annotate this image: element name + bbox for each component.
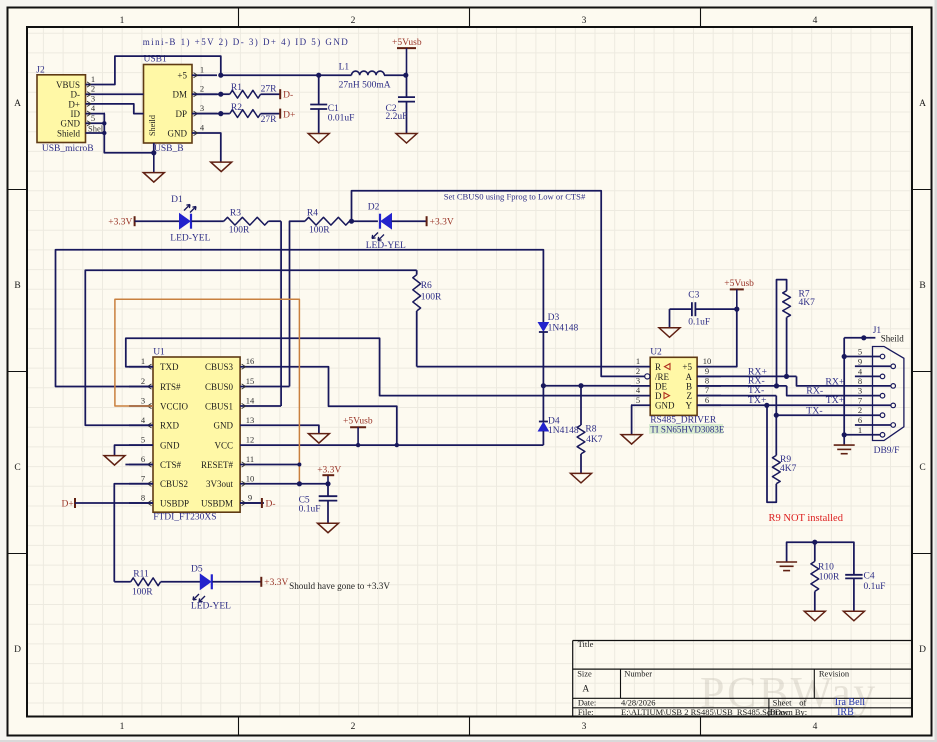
svg-text:A: A xyxy=(686,372,693,382)
wire B net xyxy=(697,385,787,387)
svg-text:2: 2 xyxy=(351,16,356,26)
junction Y/TX+ xyxy=(764,403,769,408)
junction Z/R9 xyxy=(774,413,779,418)
wire CTS# stub xyxy=(125,464,153,466)
svg-text:DP: DP xyxy=(175,109,187,119)
svg-text:R6: R6 xyxy=(421,281,432,291)
svg-text:5: 5 xyxy=(91,113,95,123)
svg-text:D-: D- xyxy=(266,500,276,510)
svg-text:Sheild: Sheild xyxy=(881,334,905,344)
diode D1 LED xyxy=(135,195,224,244)
wire U2 GND xyxy=(630,405,633,434)
wire 3V3out xyxy=(264,483,328,485)
svg-text:R4: R4 xyxy=(307,208,318,218)
svg-text:D1: D1 xyxy=(171,195,183,205)
svg-text:USBDP: USBDP xyxy=(160,498,189,508)
connector USB1 pins xyxy=(154,65,217,153)
svg-text:D: D xyxy=(655,391,662,401)
svg-text:12: 12 xyxy=(246,435,255,445)
connector J2 box xyxy=(36,66,93,154)
svg-text:3: 3 xyxy=(636,375,640,385)
svg-text:100R: 100R xyxy=(309,225,330,235)
svg-text:GND: GND xyxy=(168,128,188,138)
svg-text:4: 4 xyxy=(813,16,818,26)
svg-text:0.1uF: 0.1uF xyxy=(299,505,321,515)
diode D3 xyxy=(538,313,578,333)
earth ground J1 xyxy=(834,444,855,446)
svg-text:+3.3V: +3.3V xyxy=(264,578,288,588)
wire RTS# to D3 xyxy=(56,250,544,387)
svg-text:R8: R8 xyxy=(585,425,596,435)
svg-text:8: 8 xyxy=(858,376,862,386)
junction VCC/+5Vusb xyxy=(356,443,360,447)
svg-text:DE: DE xyxy=(655,381,667,391)
resistor R9 xyxy=(767,405,797,502)
wire CBUS1 stub xyxy=(264,405,281,407)
svg-text:Shield: Shield xyxy=(57,128,81,138)
svg-text:3: 3 xyxy=(91,93,95,103)
svg-text:TX-: TX- xyxy=(806,406,822,417)
svg-text:3: 3 xyxy=(200,103,204,113)
wire TXD loop xyxy=(126,338,631,395)
svg-text:16: 16 xyxy=(246,356,255,366)
svg-text:+3.3V: +3.3V xyxy=(430,218,454,228)
svg-text:A: A xyxy=(14,99,21,109)
junction C1 tap xyxy=(316,73,321,78)
wire +5 rail xyxy=(221,74,352,76)
svg-text:D: D xyxy=(919,645,926,655)
wire D4 to VCC rail xyxy=(542,431,544,445)
ground U1 pin13 xyxy=(308,434,329,444)
svg-text:DM: DM xyxy=(172,90,187,100)
svg-text:Size: Size xyxy=(577,668,592,678)
svg-text:RESET#: RESET# xyxy=(201,460,234,470)
svg-text:100R: 100R xyxy=(421,292,442,302)
svg-text:100R: 100R xyxy=(229,225,250,235)
ic U2 RS485 box xyxy=(650,348,697,416)
svg-text:D: D xyxy=(14,645,21,655)
resistor R10 xyxy=(811,542,840,611)
svg-text:3: 3 xyxy=(582,722,587,732)
svg-text:10: 10 xyxy=(246,473,255,483)
connector J1 shield pin xyxy=(844,334,904,344)
svg-text:ID: ID xyxy=(71,109,81,119)
port D- top xyxy=(280,89,293,100)
ground C2 xyxy=(396,134,417,144)
wire B to pin3 xyxy=(787,386,881,396)
power +3.3V at D5 xyxy=(261,577,288,588)
svg-text:C: C xyxy=(14,463,20,473)
svg-text:10: 10 xyxy=(703,356,712,366)
svg-text:14: 14 xyxy=(246,396,255,406)
svg-text:CBUS3: CBUS3 xyxy=(205,362,234,372)
svg-text:USB_microB: USB_microB xyxy=(42,144,94,154)
wire D4 from DE xyxy=(542,386,544,422)
resistor R6 xyxy=(413,270,442,366)
svg-text:TI SN65HVD3083E: TI SN65HVD3083E xyxy=(650,424,725,434)
svg-text:D-: D- xyxy=(283,90,293,100)
power +5Vusb mid xyxy=(343,417,373,446)
svg-text:15: 15 xyxy=(246,376,255,386)
junction DM-R1 xyxy=(218,92,223,97)
svg-text:5: 5 xyxy=(141,435,145,445)
junction shield node xyxy=(151,150,156,155)
ground C4 xyxy=(843,611,864,621)
capacitor C2 xyxy=(386,75,416,133)
svg-text:RTS#: RTS# xyxy=(160,382,181,392)
power +3.3V at C5 xyxy=(317,465,341,484)
svg-text:IRB: IRB xyxy=(837,707,854,718)
svg-text:CTS#: CTS# xyxy=(160,460,182,470)
svg-text:1N4148: 1N4148 xyxy=(548,426,579,436)
svg-text:Y: Y xyxy=(686,401,693,411)
svg-text:27R: 27R xyxy=(261,85,278,95)
svg-text:A: A xyxy=(919,99,926,109)
ground J2 shield xyxy=(153,153,155,173)
wire RXD to R6 xyxy=(85,270,416,425)
connector USB1 box xyxy=(144,55,193,154)
connector J1 pins xyxy=(844,347,895,438)
svg-text:R9 NOT installed: R9 NOT installed xyxy=(769,513,844,524)
svg-text:R1: R1 xyxy=(231,83,242,93)
svg-text:CBUS0: CBUS0 xyxy=(205,382,234,392)
wire CBUS3 jog xyxy=(264,367,397,445)
wire Set-CBUS0 net xyxy=(352,191,632,377)
svg-text:USB_B: USB_B xyxy=(154,144,184,154)
svg-text:D5: D5 xyxy=(191,565,203,575)
svg-text:RX-: RX- xyxy=(806,386,823,397)
svg-text:CBUS1: CBUS1 xyxy=(205,401,233,411)
svg-text:8: 8 xyxy=(141,493,145,503)
svg-text:TX+: TX+ xyxy=(826,395,845,406)
svg-text:D4: D4 xyxy=(548,416,560,426)
wire USBDP xyxy=(75,502,153,504)
svg-text:9: 9 xyxy=(705,366,709,376)
junction bus pin5 xyxy=(842,354,847,359)
svg-text:/RE: /RE xyxy=(655,372,670,382)
diode D5 LED xyxy=(191,565,261,612)
ground C1 xyxy=(308,134,329,144)
wire Z to pin2 xyxy=(776,396,880,416)
wire +5 pin10 riser xyxy=(721,309,737,367)
wire Z net xyxy=(697,395,776,397)
text TI part highlighted xyxy=(649,424,725,434)
junction VCC/CBUS3 xyxy=(395,443,399,447)
svg-text:mini-B 1) +5V 2) D- 3): mini-B 1) +5V 2) D- 3) D+ 4) ID 5) GND xyxy=(143,37,350,47)
svg-text:D+: D+ xyxy=(283,110,295,120)
wire A to pin8 xyxy=(797,376,892,386)
resistor R3 xyxy=(224,208,281,235)
wire D+ to DP xyxy=(105,104,144,114)
svg-text:2: 2 xyxy=(636,366,640,376)
ground C3 xyxy=(659,328,680,338)
ground U1 pin5 xyxy=(104,456,125,466)
wire VCCIO orange loop xyxy=(115,299,300,484)
svg-text:U2: U2 xyxy=(650,348,662,358)
svg-text:5: 5 xyxy=(858,347,862,357)
power +3.3V right of D2 xyxy=(427,216,454,228)
svg-text:11: 11 xyxy=(246,454,254,464)
svg-text:TXD: TXD xyxy=(160,362,179,372)
junction DP-R2 xyxy=(218,111,223,116)
svg-text:100R: 100R xyxy=(132,588,153,598)
earth ground chassis xyxy=(776,561,797,563)
svg-text:3: 3 xyxy=(582,16,587,26)
svg-text:J2: J2 xyxy=(36,66,45,76)
svg-text:A: A xyxy=(582,684,589,694)
svg-text:GND: GND xyxy=(655,401,675,411)
svg-text:U1: U1 xyxy=(153,348,165,358)
wire GND13 xyxy=(264,425,319,433)
svg-text:R10: R10 xyxy=(818,563,834,573)
svg-text:9: 9 xyxy=(858,356,862,366)
svg-text:27R: 27R xyxy=(261,115,278,125)
wire ID GND Shield bus xyxy=(104,114,154,153)
svg-text:RX+: RX+ xyxy=(825,377,845,388)
resistor R1 xyxy=(221,83,280,98)
wire D- to DM xyxy=(105,93,144,95)
svg-text:1: 1 xyxy=(120,16,125,26)
inductor L1 xyxy=(339,62,391,90)
svg-text:3: 3 xyxy=(858,386,862,396)
wire CBUS2 to R11 xyxy=(114,484,153,582)
svg-text:2: 2 xyxy=(200,84,204,94)
svg-text:D2: D2 xyxy=(368,202,380,212)
svg-text:DB9/F: DB9/F xyxy=(874,446,900,456)
svg-text:D+: D+ xyxy=(62,500,74,510)
ground USB_B xyxy=(211,162,232,172)
junction shield stub xyxy=(861,335,866,340)
svg-text:CBUS2: CBUS2 xyxy=(160,479,188,489)
svg-text:R3: R3 xyxy=(230,208,241,218)
svg-text:R2: R2 xyxy=(231,103,242,113)
svg-text:+3.3V: +3.3V xyxy=(108,218,132,228)
svg-text:C1: C1 xyxy=(328,104,339,114)
junction DE/D3 xyxy=(541,383,546,388)
svg-text:+3.3V: +3.3V xyxy=(317,465,341,475)
svg-text:D+: D+ xyxy=(68,99,80,109)
junction DE/R8 xyxy=(578,383,583,388)
svg-text:+5Vusb: +5Vusb xyxy=(343,417,373,427)
power +5Vusb top xyxy=(392,38,422,75)
resistor R11 xyxy=(114,569,200,597)
svg-text:Revision: Revision xyxy=(819,669,850,679)
svg-text:Set CBUS0 using Fprog to Low o: Set CBUS0 using Fprog to Low or CTS# xyxy=(444,191,586,201)
svg-text:R11: R11 xyxy=(133,569,149,579)
svg-text:4: 4 xyxy=(813,722,818,732)
svg-text:R: R xyxy=(655,362,661,372)
svg-text:D-: D- xyxy=(71,90,81,100)
junction 3V3out/orange xyxy=(297,481,302,486)
junction D2/R4/CBUS0 xyxy=(349,219,354,224)
wire RESET# stub xyxy=(264,464,299,466)
junction A/R7 xyxy=(784,374,789,379)
svg-text:6: 6 xyxy=(141,454,145,464)
diode D4 xyxy=(538,416,578,436)
capacitor C4 xyxy=(845,572,885,612)
resistor R4 xyxy=(305,208,352,235)
svg-text:E:\ALTIUM\USB 2 RS485\USB_RS48: E:\ALTIUM\USB 2 RS485\USB_RS485.SchDoc xyxy=(621,707,789,717)
wire D3 to DE xyxy=(542,332,544,386)
wire R6 to U2 R xyxy=(417,366,631,368)
svg-text:Title: Title xyxy=(578,639,594,649)
svg-text:LED-YEL: LED-YEL xyxy=(191,601,231,611)
svg-text:VCCIO: VCCIO xyxy=(160,401,189,411)
wire J1 ground bus xyxy=(843,338,845,445)
wire R4 to CBUS0 xyxy=(290,221,305,386)
power +5Vusb at C3 xyxy=(724,279,754,309)
resistor R7 xyxy=(777,280,816,386)
svg-text:4K7: 4K7 xyxy=(780,464,797,474)
svg-text:LED-YEL: LED-YEL xyxy=(170,234,210,244)
wire USBDM xyxy=(240,502,262,504)
wire chassis top xyxy=(787,542,854,575)
svg-text:B: B xyxy=(14,281,20,291)
power +3.3V left xyxy=(108,216,134,228)
svg-text:2: 2 xyxy=(351,722,356,732)
junction 3V3out/+3.3V xyxy=(325,481,330,486)
ground R8 xyxy=(571,473,592,483)
svg-text:1: 1 xyxy=(200,65,204,75)
svg-text:File:: File: xyxy=(578,707,594,717)
ground R10 xyxy=(804,611,825,621)
junction B/R7 xyxy=(774,383,779,388)
resistor R2 xyxy=(221,103,280,125)
svg-text:1: 1 xyxy=(858,425,862,435)
junction bus-Shield xyxy=(102,131,106,135)
svg-text:Z: Z xyxy=(687,391,693,401)
svg-text:7: 7 xyxy=(858,395,862,405)
junction C3 node xyxy=(734,307,739,312)
capacitor C1 xyxy=(310,75,354,133)
svg-text:Drawn By:: Drawn By: xyxy=(770,707,808,717)
svg-text:1: 1 xyxy=(141,356,145,366)
svg-text:0.01uF: 0.01uF xyxy=(328,114,355,124)
svg-text:C3: C3 xyxy=(688,290,699,300)
wire R3 to CBUS1 xyxy=(280,221,282,406)
svg-text:4K7: 4K7 xyxy=(799,298,816,308)
svg-text:RXD: RXD xyxy=(160,421,180,431)
svg-text:3: 3 xyxy=(141,396,145,406)
svg-text:Should have gone to +3.3V: Should have gone to +3.3V xyxy=(289,581,390,591)
wire Y net xyxy=(697,404,891,406)
junction +5/VBUS xyxy=(218,73,223,78)
svg-text:GND: GND xyxy=(160,441,180,451)
junction bus-GND xyxy=(102,121,106,125)
svg-text:C4: C4 xyxy=(864,572,875,582)
wire USB1 GND down xyxy=(217,133,221,162)
svg-text:7: 7 xyxy=(141,473,145,483)
port D- right xyxy=(262,498,276,510)
svg-text:27nH 500mA: 27nH 500mA xyxy=(339,81,391,91)
svg-text:9: 9 xyxy=(248,493,252,503)
port D+ top xyxy=(280,109,295,121)
svg-text:2: 2 xyxy=(91,84,95,94)
svg-text:0.1uF: 0.1uF xyxy=(864,582,886,592)
ic U1 pins xyxy=(129,356,264,505)
svg-text:2.2uF: 2.2uF xyxy=(386,112,408,122)
diode D2 LED xyxy=(352,202,427,251)
connector J1 body xyxy=(873,326,904,456)
svg-text:2: 2 xyxy=(141,376,145,386)
wire CBUS0 stub xyxy=(264,386,290,388)
capacitor C3 xyxy=(670,290,737,328)
svg-text:100R: 100R xyxy=(819,572,840,582)
wire DE row xyxy=(543,385,631,387)
svg-text:USBDM: USBDM xyxy=(201,498,233,508)
wire A net xyxy=(697,375,796,377)
ground C5 xyxy=(318,523,339,533)
svg-text:Sheild: Sheild xyxy=(148,115,157,136)
ic U2 pins xyxy=(631,356,721,405)
wire VCC rail xyxy=(264,444,543,446)
svg-text:FTDI_FT230XS: FTDI_FT230XS xyxy=(153,513,216,523)
svg-text:1N4148: 1N4148 xyxy=(548,323,579,333)
svg-text:4K7: 4K7 xyxy=(586,435,603,445)
junction +5Vusb node xyxy=(403,73,408,78)
svg-text:+5: +5 xyxy=(177,71,187,81)
svg-text:D3: D3 xyxy=(548,313,560,323)
ic U1 FTDI_FT230XS box xyxy=(153,348,240,523)
svg-text:+5: +5 xyxy=(682,362,692,372)
connector J2 pins xyxy=(86,74,107,134)
svg-text:TX+: TX+ xyxy=(748,395,767,406)
svg-text:+5Vusb: +5Vusb xyxy=(392,38,422,48)
svg-text:2: 2 xyxy=(858,405,862,415)
svg-text:GND: GND xyxy=(61,119,81,129)
svg-text:L1: L1 xyxy=(339,62,350,72)
capacitor C5 xyxy=(299,484,338,523)
svg-text:1: 1 xyxy=(636,356,640,366)
port D+ left xyxy=(62,498,76,510)
svg-text:0.1uF: 0.1uF xyxy=(688,318,710,328)
junction R10 tap xyxy=(812,540,817,545)
svg-text:GND: GND xyxy=(214,421,234,431)
svg-text:6: 6 xyxy=(858,415,862,425)
svg-text:B: B xyxy=(919,281,925,291)
svg-text:C: C xyxy=(919,463,925,473)
wire GND pin5 xyxy=(115,445,154,456)
resistor R8 xyxy=(577,386,603,474)
svg-text:Number: Number xyxy=(624,668,652,678)
svg-text:+5Vusb: +5Vusb xyxy=(724,279,754,289)
svg-text:13: 13 xyxy=(246,415,255,425)
svg-text:B: B xyxy=(686,381,692,391)
svg-text:5: 5 xyxy=(636,395,640,405)
ground U2 xyxy=(621,435,642,445)
junction RESET#/orange xyxy=(297,463,301,467)
svg-text:VBUS: VBUS xyxy=(56,80,80,90)
junction bus pin1 xyxy=(842,432,847,437)
svg-text:1: 1 xyxy=(91,74,95,84)
wire VBUS to +5 xyxy=(105,56,221,84)
svg-text:1: 1 xyxy=(120,722,125,732)
svg-text:3V3out: 3V3out xyxy=(206,479,233,489)
svg-text:VCC: VCC xyxy=(214,441,233,451)
